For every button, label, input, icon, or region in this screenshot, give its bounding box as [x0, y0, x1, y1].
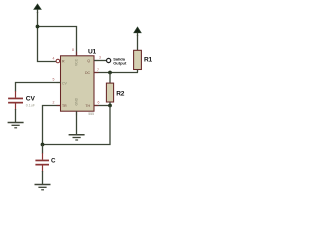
- IC U1 555 body: [61, 56, 95, 111]
- wire CV pin to capacitor CV: [16, 83, 61, 92]
- svg-text:R1: R1: [144, 57, 153, 64]
- svg-text:U1: U1: [88, 49, 97, 56]
- output terminal circle: [107, 58, 111, 62]
- wire TR pin to left vertical: [43, 106, 61, 146]
- wire capacitor CV to ground: [15, 109, 17, 122]
- svg-text:555: 555: [88, 112, 94, 116]
- junction DC / R2 top: [108, 71, 112, 75]
- wire R2 bottom to TH net: [109, 102, 111, 106]
- power terminal VDD left: [34, 4, 41, 13]
- capacitor C: [35, 153, 49, 172]
- svg-text:4: 4: [53, 57, 55, 61]
- wire VDD to R1 top: [137, 35, 139, 50]
- junction VDD branch: [36, 25, 40, 29]
- svg-text:6: 6: [98, 100, 100, 104]
- svg-text:3: 3: [99, 55, 101, 59]
- ground below C: [35, 185, 51, 190]
- svg-text:5: 5: [53, 78, 55, 82]
- svg-text:Q: Q: [87, 59, 90, 63]
- svg-text:2: 2: [53, 101, 55, 105]
- pin stub DC: [94, 72, 99, 74]
- svg-text:8: 8: [72, 48, 74, 52]
- pin stub VCC: [76, 52, 78, 57]
- capacitor CV: [8, 91, 23, 110]
- pin stub Q: [94, 60, 99, 62]
- resistor R1: [134, 50, 142, 69]
- wire VDD branch to pin 8: [38, 27, 77, 57]
- svg-text:0.1uF: 0.1uF: [26, 103, 36, 107]
- pin stub CV: [57, 82, 61, 84]
- wire capacitor C to ground: [42, 171, 44, 185]
- pin bubble reset: [56, 59, 60, 63]
- wire DC net horizontal: [94, 72, 138, 74]
- junction TH / R2 bottom: [108, 104, 112, 108]
- pin stub TR: [57, 105, 61, 107]
- svg-text:CV: CV: [62, 81, 68, 85]
- svg-text:Output: Output: [113, 61, 127, 66]
- junction TR/TH node to capacitor C: [41, 143, 45, 147]
- ground below U1: [69, 135, 85, 140]
- svg-text:DC: DC: [85, 71, 91, 75]
- power terminal VDD right: [134, 27, 141, 36]
- wire junction to R2 top: [109, 73, 111, 84]
- svg-text:GND: GND: [75, 97, 79, 105]
- pin stub GND: [76, 111, 78, 115]
- svg-text:R2: R2: [116, 90, 125, 97]
- svg-text:VCC: VCC: [75, 58, 79, 66]
- wire Q output: [94, 60, 106, 62]
- wire TH node down and across to TR node: [43, 106, 111, 145]
- svg-text:TR: TR: [62, 104, 67, 108]
- wire junction down to capacitor C: [42, 145, 44, 154]
- wire VDD rail to reset pin: [38, 12, 57, 62]
- resistor R2: [106, 83, 113, 102]
- svg-text:7: 7: [97, 68, 99, 72]
- ground below CV: [8, 123, 24, 128]
- pin stub TH: [94, 105, 99, 107]
- wire R1 bottom to DC net: [137, 70, 139, 73]
- wire GND pin to ground: [76, 111, 78, 134]
- svg-text:CV: CV: [26, 96, 36, 103]
- svg-text:C: C: [51, 158, 56, 165]
- wire TH net horizontal: [94, 105, 110, 107]
- svg-text:TH: TH: [85, 104, 90, 108]
